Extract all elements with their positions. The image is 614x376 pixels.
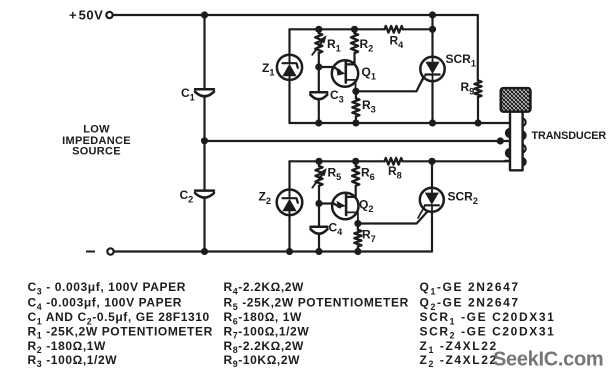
SCR SCR1: [420, 57, 444, 81]
resistor R7: [354, 230, 361, 247]
svg-text:SeekIC.com: SeekIC.com: [493, 349, 603, 371]
capacitor C1: [195, 88, 214, 91]
node minus terminal: [107, 248, 113, 254]
svg-text:TRANSDUCER: TRANSDUCER: [532, 130, 607, 142]
resistor R6: [352, 166, 359, 186]
node junction dots: [201, 11, 208, 18]
wire R5 branch top: [318, 161, 320, 166]
wire C4 to bottom rail: [318, 234, 320, 251]
wire SCR1 gate: [356, 76, 424, 92]
SCR SCR2: [420, 188, 444, 212]
wire lower subcircuit top rail: [290, 160, 385, 162]
svg-text:SOURCE: SOURCE: [72, 146, 121, 158]
svg-text:+ 50V: + 50V: [69, 8, 103, 23]
transistor Q2 (UJT): [332, 193, 358, 219]
wire main vertical C1/C2 branch upper: [203, 15, 205, 89]
wire R1 branch top: [318, 29, 320, 33]
wire R7 to bottom rail: [357, 247, 359, 252]
wire top rail after R4: [403, 28, 433, 30]
wire Q2 b1 junction to R7: [357, 224, 359, 230]
wire lower top rail after R8 to transducer: [403, 160, 510, 162]
capacitor C2: [195, 189, 214, 192]
transducer coil bumps right: [523, 118, 526, 165]
resistor R1 potentiometer: [315, 33, 322, 53]
wire R9 to bottom rail: [477, 97, 479, 123]
zener Z1: [277, 55, 302, 80]
wire C4 junction down: [318, 204, 320, 227]
wire R6 branch top: [355, 161, 357, 166]
wire R9 drop from top rail: [477, 15, 479, 81]
wire SCR2 branch vertical: [431, 161, 433, 251]
resistor R9: [474, 81, 481, 98]
node +50V terminal: [106, 12, 112, 18]
wire SCR1 branch vertical: [431, 29, 433, 123]
wire Z2 branch vertical: [288, 161, 290, 251]
wire C2 to bottom rail: [203, 198, 205, 251]
wire C1 to mid junction: [203, 97, 205, 141]
wire Q1 emitter: [319, 67, 340, 71]
resistor R2: [351, 33, 358, 53]
wire middle rail to transducer: [205, 140, 510, 142]
wire R5 bottom to emitter junction: [318, 186, 320, 204]
resistor R5 potentiometer: [315, 166, 322, 186]
wire R2 to Q1 base2: [346, 53, 355, 64]
wire R2 branch top: [353, 29, 355, 33]
svg-text:C3 - 0.003μf, 100V PAPER: C3 - 0.003μf, 100V PAPER: [28, 280, 187, 296]
label minus terminal: [86, 251, 95, 253]
wire C3 to bottom rail: [318, 100, 320, 123]
capacitor C4: [311, 225, 328, 228]
wire upper subcircuit top rail: [290, 28, 385, 30]
resistor R8: [385, 158, 403, 165]
wire Q2 emitter: [319, 204, 340, 208]
wire upper subcircuit bottom rail: [290, 122, 510, 124]
wire mid junction to C2: [203, 141, 205, 191]
wire R3 to bottom rail: [355, 117, 357, 124]
wire Z1 branch vertical: [288, 29, 290, 123]
zener Z2: [277, 190, 303, 216]
wire SCR2 gate: [358, 211, 428, 224]
transducer core bar: [510, 112, 523, 171]
wire lower rail tap into transducer: [505, 160, 510, 162]
capacitor C3: [310, 91, 327, 94]
resistor R4: [385, 26, 404, 33]
wire C3 junction down: [318, 67, 320, 92]
wire SCR1 branch tie to +50V rail: [431, 15, 433, 29]
transducer hatched head box: [501, 88, 531, 111]
svg-text:LOW: LOW: [83, 124, 110, 136]
wire top rail +50V: [113, 14, 478, 16]
wire R6 to Q2 base2: [346, 186, 356, 197]
wire bottom rail: [114, 250, 432, 252]
transistor Q1 (UJT): [332, 60, 358, 86]
transducer coil taps left (filled): [506, 129, 510, 138]
resistor R3: [352, 98, 359, 116]
wire Q1 b1 junction to R3: [355, 91, 357, 98]
wire R1 bottom to emitter junction: [318, 53, 320, 67]
